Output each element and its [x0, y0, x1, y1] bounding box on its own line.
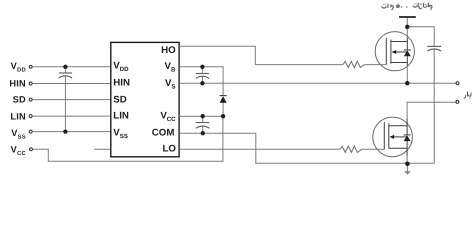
terminal HIN	[29, 82, 32, 85]
capacitor C2 (bootstrap VB-VS)	[196, 74, 209, 79]
MOSFET Q1 (high side) body circle	[375, 32, 414, 71]
wire VSS input	[33, 131, 111, 133]
MOSFET Q2 (low side) body circle	[373, 117, 413, 157]
resistor R1 (high-side gate)	[343, 61, 365, 67]
load terminal lower	[456, 100, 459, 103]
wire HO to gate resistor R1	[179, 46, 343, 64]
svg-text:HIN: HIN	[9, 79, 26, 89]
junction node +500V rail	[405, 25, 409, 29]
Q1 arrow (n-channel)	[392, 50, 397, 54]
wire LO to gate resistor R2	[179, 148, 340, 150]
svg-text:HIN: HIN	[113, 78, 130, 89]
wire diode D1 anode to VCC row	[222, 103, 224, 117]
junction node VSS-C1	[63, 129, 67, 133]
+500V supply rail bar	[399, 16, 416, 18]
terminal VDD	[29, 65, 32, 68]
MOSFET Q2 internals	[384, 119, 407, 157]
wire stub left pin	[94, 148, 110, 150]
junction node COM-C3	[201, 131, 205, 135]
svg-text:VCC: VCC	[11, 145, 27, 158]
terminal LIN	[29, 115, 32, 118]
wire +500V rail down lead	[406, 18, 408, 27]
wire C3 upper lead	[202, 116, 204, 122]
wire VDD input	[33, 66, 111, 68]
load terminal upper (switch node)	[456, 82, 459, 85]
wire Q2 source to ground node	[406, 156, 408, 163]
svg-text:LIN: LIN	[10, 112, 26, 122]
terminal SD	[29, 98, 32, 101]
wire HIN input	[33, 83, 111, 85]
wire VS to switch node and load terminal	[179, 82, 456, 84]
junction node switch/VS	[405, 81, 409, 85]
Q2 arrow (n-channel)	[389, 135, 394, 139]
wire SD input	[33, 99, 111, 101]
wire LIN input	[33, 115, 111, 117]
terminal VSS	[29, 130, 32, 133]
junction node VCC-C3	[201, 114, 205, 118]
wire Q1 drain	[406, 27, 408, 38]
resistor R2 (low-side gate)	[340, 146, 362, 152]
terminal VCC	[30, 148, 33, 151]
svg-text:COM: COM	[152, 128, 175, 139]
wire rail to bus capacitor C4	[407, 27, 434, 47]
junction node VS-C2	[200, 81, 204, 85]
IC U1 gate driver box	[111, 42, 179, 156]
svg-text:VSS: VSS	[11, 128, 26, 141]
wire C1 upper lead	[64, 67, 66, 73]
wire VCC supply routing	[33, 116, 223, 161]
capacitor C1 (VDD-VSS bypass)	[59, 73, 72, 78]
diode D1 bootstrap	[220, 96, 227, 103]
wire VB to bootstrap diode	[179, 67, 223, 96]
wire C2 upper lead	[201, 67, 203, 74]
wire VCC pin	[179, 115, 223, 117]
wire R2 to Q2 gate	[362, 148, 385, 150]
Q2 body diode	[404, 134, 411, 136]
junction node VDD-C1	[63, 65, 67, 69]
svg-text:LIN: LIN	[113, 111, 129, 122]
label (Persian) voltage up to 500 volts	[382, 3, 432, 10]
wire C2 lower lead	[201, 77, 203, 84]
svg-text:HO: HO	[161, 45, 176, 56]
wire Q2 drain to load terminal	[407, 102, 456, 118]
wire COM to ground rail	[179, 133, 434, 163]
Q1 body diode	[404, 49, 411, 51]
capacitor C4 (500V bus)	[427, 46, 441, 51]
wire C4 lower lead to ground rail	[433, 49, 435, 163]
wire C1 lower lead	[64, 76, 66, 132]
capacitor C3 (VCC-COM bypass)	[196, 123, 210, 129]
junction node VCC-D1	[221, 114, 225, 118]
wire Q1 source to switch node	[406, 66, 408, 84]
svg-text:SD: SD	[113, 95, 126, 106]
MOSFET Q1 internals	[386, 38, 407, 66]
svg-text:VDD: VDD	[11, 61, 26, 74]
ground symbol	[404, 171, 411, 174]
junction node VB-C2	[200, 65, 204, 69]
svg-text:LO: LO	[162, 144, 176, 155]
junction node ground	[405, 162, 410, 167]
svg-text:SD: SD	[13, 95, 26, 105]
wire C3 lower lead	[202, 127, 204, 134]
wire R1 to Q1 gate	[365, 64, 387, 66]
label (Persian) load	[464, 92, 471, 99]
wire ground stub	[406, 163, 408, 171]
